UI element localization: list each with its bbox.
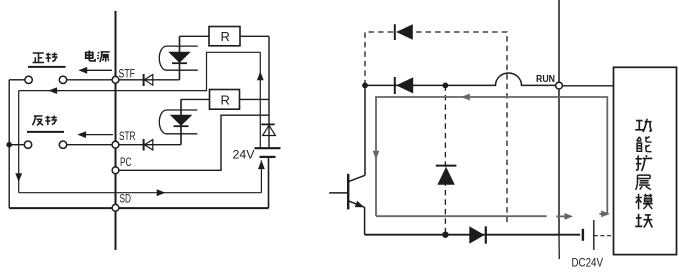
wire: current loop annotation return vertical with up arrow [258,160,265,192]
wire: RUN terminal to module box [562,85,613,87]
wire: reverse switch row [9,144,112,146]
svg-text:RUN: RUN [536,73,555,85]
wire: current loop annotation upper horizontal with left arrow [19,52,261,94]
diode D4 on dashed top path (filled, pointing left) [395,24,413,40]
node: junction dot RUN/freewheel diode [443,83,449,89]
svg-text:STR: STR [119,131,136,143]
wire: current loop annotation bottom horizontal with right arrow [19,189,262,196]
arrow: gray entry arrow into module (bottom right) [599,211,610,218]
terminal STR [112,131,135,148]
optocoupler U2 LED (filled down triangle + cathode bar + leads) [171,99,191,144]
wire: R1 right lead to right rail [240,35,269,37]
wire: dashed freewheel branch vertical [444,85,446,234]
transistor Q1 (open collector output) [329,85,365,234]
terminal STF [112,69,135,84]
optocoupler U2 (arc + bars) [159,110,197,134]
battery DC24V (short plate + long plate) [572,220,604,270]
terminal PC [112,157,131,174]
wire: current loop annotation right vertical with up arrow [257,52,264,148]
label 反转 (reverse) with underline [27,116,64,132]
terminal SD [112,194,131,212]
wire: 24V negative lead down to SD wire [268,157,270,208]
optocoupler U1 (arc + bars) [159,46,198,70]
wire: STR terminal to optocoupler LED [119,144,181,146]
wire: bottom emitter wire to battery [365,234,581,236]
switch SW1 forward contacts [25,76,67,83]
diode D3 on right rail (pointing up, open) [261,124,275,135]
svg-text:STF: STF [119,69,136,81]
wire: R2 left lead [181,98,210,100]
svg-text:24V: 24V [233,150,255,162]
node: junction dot at collector/RUN [362,83,368,89]
diode D7 on bottom wire (filled, pointing right, bar right) [469,226,486,243]
node: junction dot on bottom wire [442,232,448,238]
svg-text:R: R [221,93,230,108]
wire: right rail vertical (to 24V) [268,36,270,148]
wire: left outer vertical [8,80,10,208]
wire: gray current loop (top with left arrow, left with down arrow, right vertical) [373,94,608,216]
wire: STF terminal to optocoupler LED [119,79,180,81]
wire: forward switch row [9,79,112,81]
wire: bottom SD common wire [9,207,268,209]
svg-text:R: R [221,29,230,44]
svg-text:SD: SD [120,194,132,206]
wire: dashed battery to module box [594,235,614,237]
diode D6 freewheel (filled, pointing up, bar on top) [436,166,457,185]
diode D2 on STR wire (cathode bar left, open triangle) [144,139,153,151]
diode D5 on RUN wire (filled, pointing left) [395,77,413,94]
resistor R1 [209,27,240,46]
wire: PC terminal wire (right, up, right to rail) [119,115,269,170]
wire: control terminal bus vertical [115,11,117,250]
node: junction dot on left vertical [6,142,12,148]
wire: long vertical through RUN terminal [558,0,560,235]
arrow: power current direction (left) under 电源 [78,67,112,74]
switch SW2 reverse contacts [24,141,66,148]
wire: RUN wire with hop over dashed line [365,73,556,85]
wire: short vertical below bottom wire [558,235,560,259]
label 正转 (forward) with underline [28,53,66,67]
wire: current loop annotation left inner vertical with down arrow [15,91,22,193]
diode D1 on STF wire (cathode bar left, open triangle) [144,74,153,86]
battery 24V (plates) [233,148,281,161]
optocoupler U1 LED (filled down triangle + cathode bar + leads) [169,36,189,80]
wire: dashed snubber path (left vertical, top horizontal, right vertical) [365,32,507,223]
arrow: reverse row current direction (left) [77,131,113,138]
resistor R2 [210,90,240,110]
label 功能扩展模块 (vertical) [635,119,652,228]
wire: R2 right lead to right rail [240,98,270,100]
module box 功能扩展模块 [614,67,677,254]
label 电源 (power) [86,50,110,62]
terminal RUN [536,73,562,89]
wire: R1 left lead [180,35,210,37]
wire: gray loop bottom with right arrow [376,213,573,220]
svg-text:DC24V: DC24V [572,258,604,270]
svg-text:PC: PC [120,157,132,169]
